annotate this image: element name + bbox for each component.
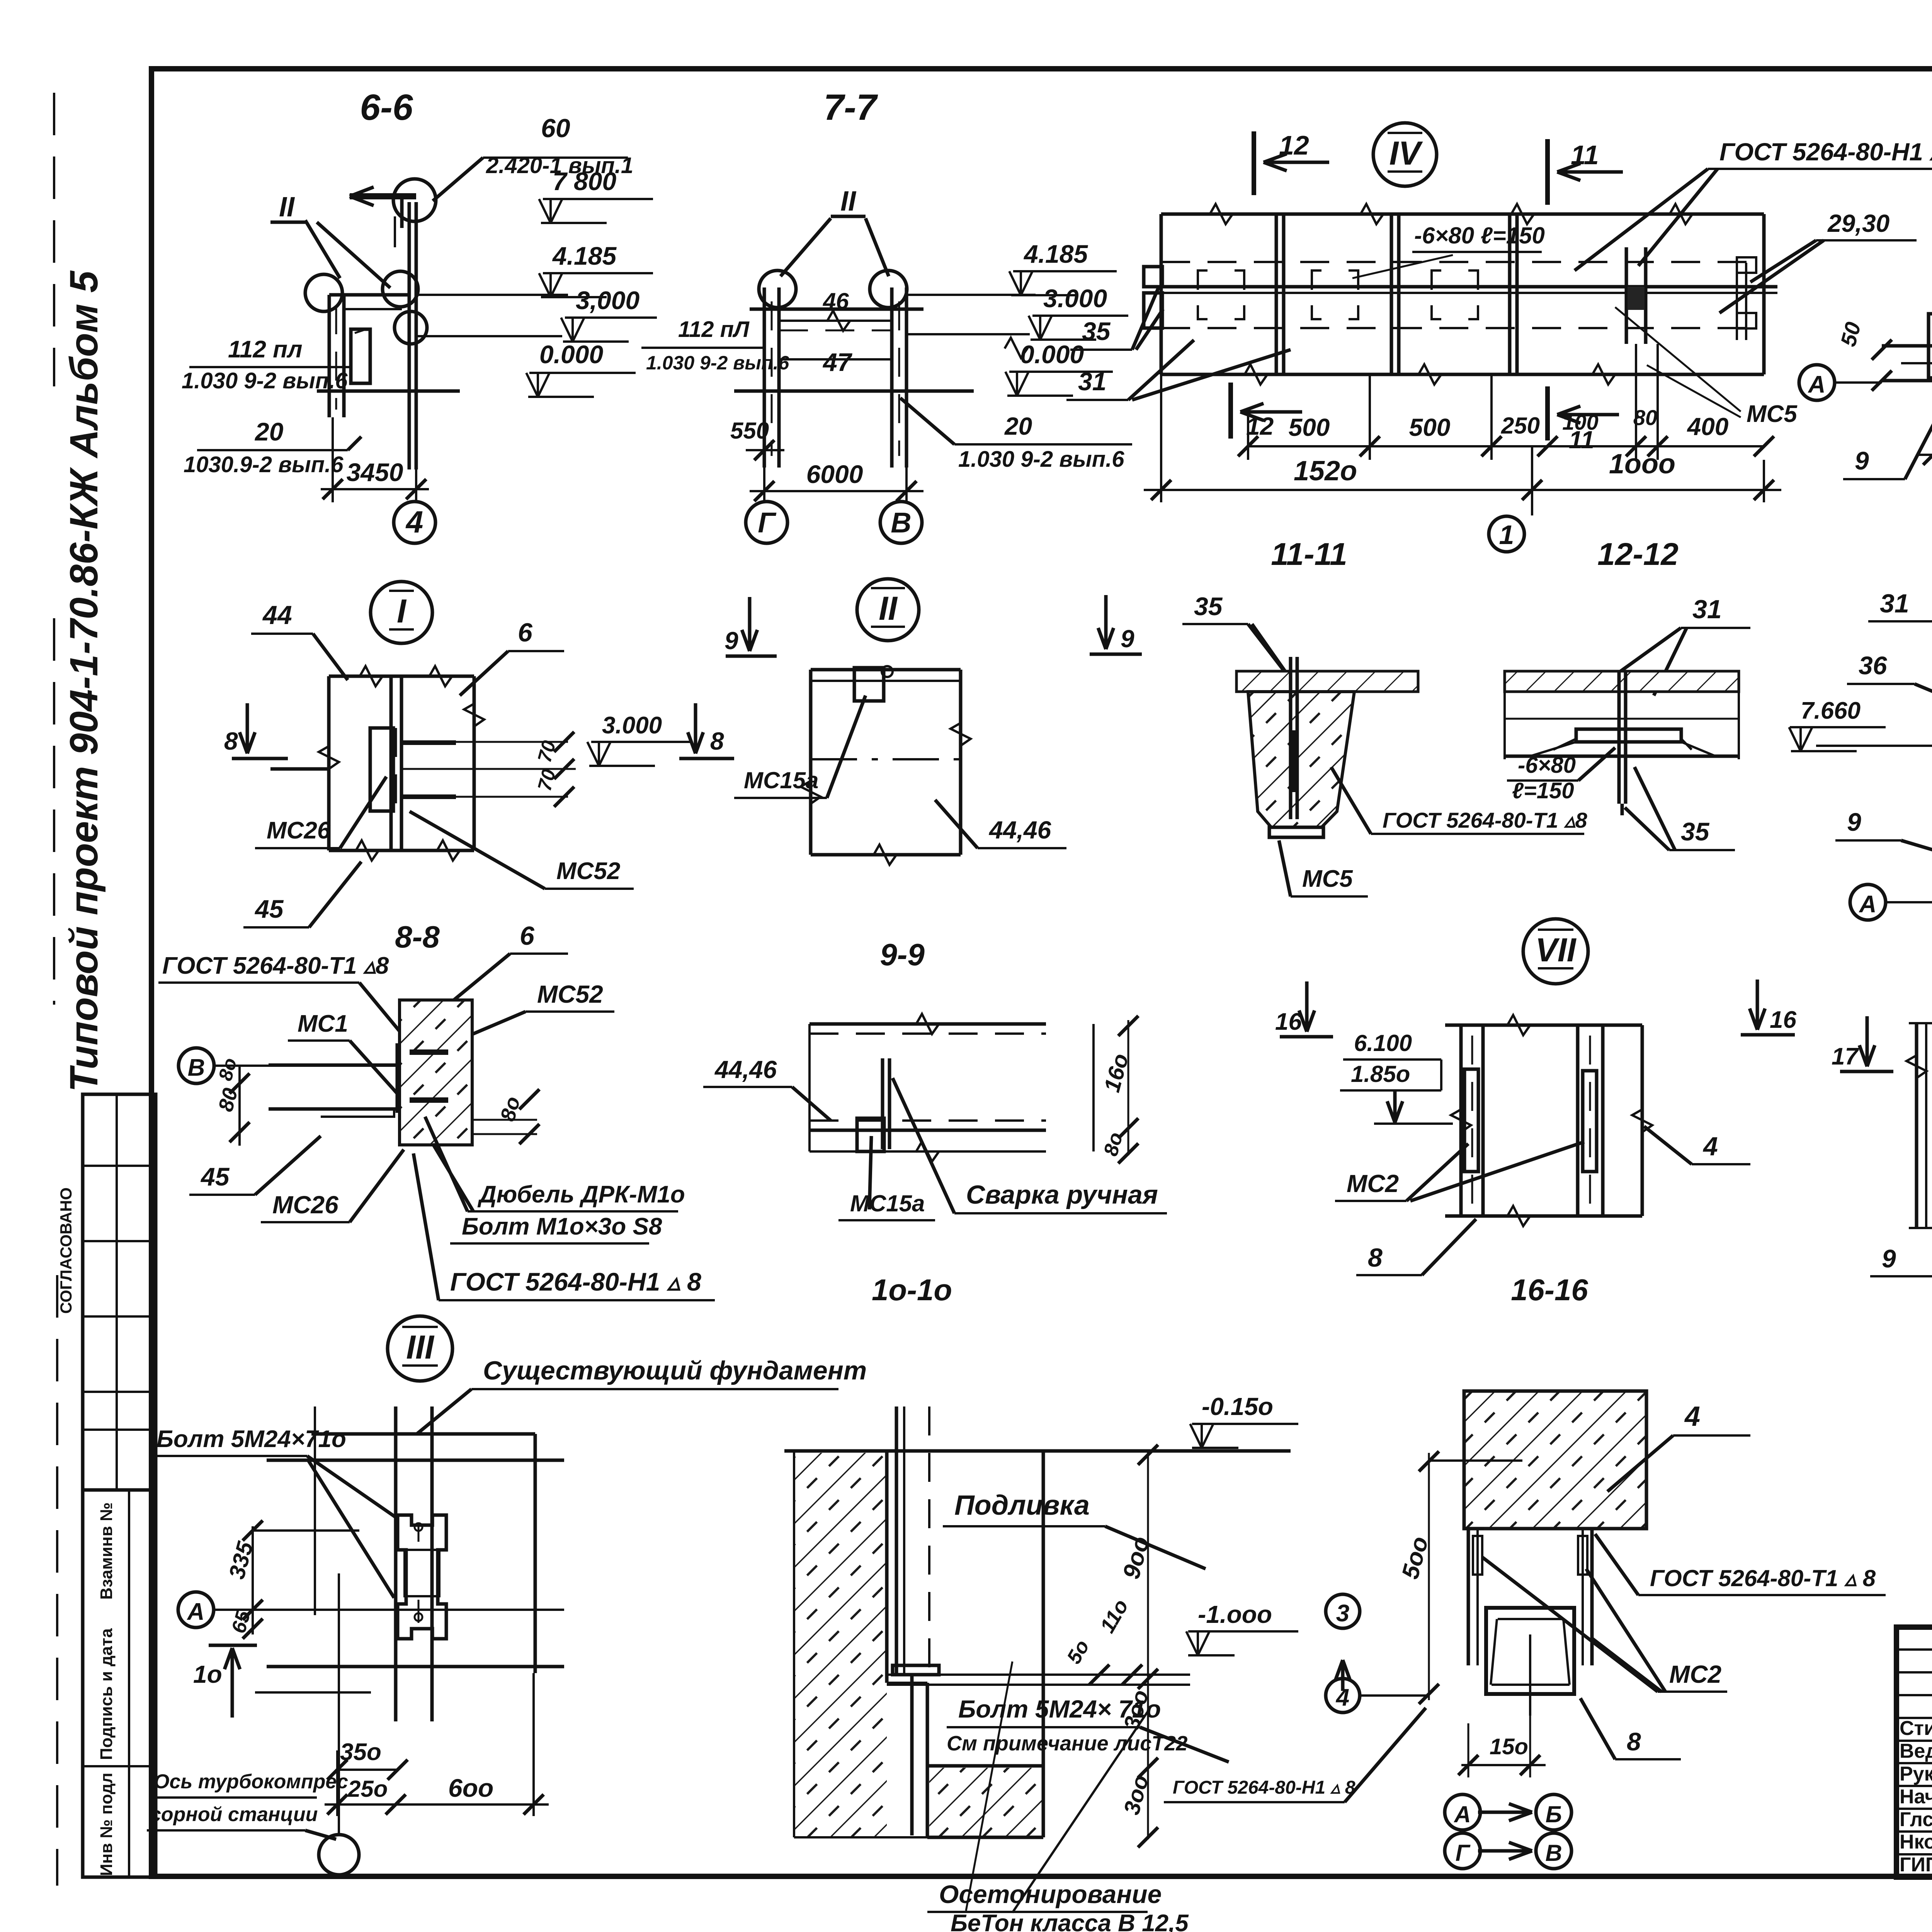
10-10 panel bbox=[810, 1022, 1046, 1026]
svg-text:9: 9 bbox=[1882, 1244, 1896, 1273]
12-12 slab lines bbox=[1505, 671, 1739, 692]
svg-text:Инв № подл: Инв № подл bbox=[97, 1772, 116, 1876]
svg-text:4: 4 bbox=[405, 505, 423, 539]
svg-text:4.185: 4.185 bbox=[552, 241, 617, 270]
svg-text:16: 16 bbox=[1275, 1009, 1302, 1035]
IV cut mark 12 top bbox=[1252, 131, 1256, 195]
svg-text:7.660: 7.660 bbox=[1801, 697, 1861, 724]
svg-text:МС5: МС5 bbox=[1747, 401, 1798, 427]
svg-text:4: 4 bbox=[1684, 1401, 1700, 1432]
sleeve axis arrows A-B G-V bbox=[1445, 1794, 1480, 1830]
svg-text:ГОСТ 5264-80-Н1 ▵ 8: ГОСТ 5264-80-Н1 ▵ 8 bbox=[1173, 1777, 1355, 1798]
svg-text:0.000: 0.000 bbox=[1020, 340, 1084, 369]
svg-text:ГОСТ 5264-80-Н1 ▵ 8: ГОСТ 5264-80-Н1 ▵ 8 bbox=[450, 1267, 701, 1296]
svg-text:35: 35 bbox=[1194, 592, 1223, 621]
title block signature grid bbox=[1896, 1648, 1932, 1651]
6-6 joint circle top bbox=[393, 179, 436, 221]
B-B axis B circle bbox=[179, 1048, 214, 1083]
svg-text:9-9: 9-9 bbox=[880, 937, 925, 972]
svg-text:7-7: 7-7 bbox=[823, 87, 878, 128]
III column section bbox=[398, 1515, 446, 1639]
svg-text:В: В bbox=[188, 1054, 205, 1081]
IV cut mark 11 bottom bbox=[1545, 386, 1550, 440]
svg-text:35: 35 bbox=[1681, 817, 1710, 846]
6-6 junction circles bbox=[305, 274, 342, 311]
svg-text:36: 36 bbox=[1859, 651, 1888, 680]
svg-text:Осетонирование: Осетонирование bbox=[939, 1880, 1162, 1908]
svg-text:12-12: 12-12 bbox=[1597, 537, 1679, 572]
svg-text:1: 1 bbox=[1499, 520, 1514, 550]
svg-text:Дюбель ДРК-М1о: Дюбель ДРК-М1о bbox=[477, 1181, 685, 1208]
svg-text:8: 8 bbox=[710, 727, 724, 755]
6-6 axis 4 circle bbox=[415, 489, 417, 501]
svg-text:МС26: МС26 bbox=[267, 817, 331, 844]
svg-text:112 пл: 112 пл bbox=[228, 336, 303, 363]
svg-text:II: II bbox=[279, 192, 295, 223]
svg-text:IV: IV bbox=[1389, 135, 1423, 172]
svg-text:ГОСТ 5264-80-Т1 ▵ 8: ГОСТ 5264-80-Т1 ▵ 8 bbox=[1650, 1565, 1876, 1591]
svg-text:ГОСТ 5264-80-Т1 ▵8: ГОСТ 5264-80-Т1 ▵8 bbox=[162, 952, 389, 979]
II top clip bbox=[854, 668, 884, 701]
svg-text:16: 16 bbox=[1770, 1007, 1796, 1033]
IV beam partitions bbox=[1275, 214, 1278, 374]
IV right bolt assembly bbox=[1625, 247, 1628, 344]
svg-text:Начотд: Начотд bbox=[1900, 1786, 1932, 1808]
B-B dims 80 80 80 bbox=[238, 1066, 241, 1146]
svg-text:9: 9 bbox=[1847, 808, 1861, 836]
svg-text:VII: VII bbox=[1535, 932, 1577, 969]
7-7 dim 6000 bbox=[763, 468, 765, 502]
IV beam plate band bbox=[1144, 285, 1777, 289]
6-6 dim 3450 bbox=[332, 417, 334, 502]
detail VII circle bbox=[1523, 919, 1588, 984]
svg-text:12: 12 bbox=[1246, 412, 1274, 440]
svg-text:В: В bbox=[1545, 1840, 1562, 1866]
13-13mid axis A circle bbox=[1850, 884, 1886, 920]
svg-text:20: 20 bbox=[1004, 412, 1032, 440]
svg-text:12: 12 bbox=[1279, 130, 1309, 160]
6-6 left column bbox=[328, 295, 331, 417]
svg-text:Сварка ручная: Сварка ручная bbox=[966, 1180, 1158, 1209]
svg-text:44: 44 bbox=[262, 600, 292, 630]
foundation grout line bbox=[887, 1673, 1190, 1676]
svg-text:-1.ооо: -1.ооо bbox=[1198, 1600, 1272, 1628]
sleeve dim 500 bbox=[1428, 1453, 1430, 1700]
sleeve left line bbox=[1430, 1459, 1522, 1462]
svg-text:1.030 9-2 вып.6: 1.030 9-2 вып.6 bbox=[182, 368, 348, 393]
foundation existing hatched bbox=[794, 1453, 887, 1837]
6-6 column shaft bbox=[408, 202, 411, 469]
svg-text:15о: 15о bbox=[1490, 1734, 1528, 1759]
svg-text:См примечание лисТ22: См примечание лисТ22 bbox=[947, 1732, 1187, 1755]
12-12 flange plate bbox=[1576, 729, 1681, 742]
svg-text:8: 8 bbox=[1368, 1243, 1383, 1272]
sleeve label 3-4 axis bbox=[1326, 1594, 1360, 1628]
svg-text:11: 11 bbox=[1571, 140, 1599, 170]
detail II circle bbox=[857, 579, 919, 641]
16-16 plates bbox=[1464, 1069, 1478, 1172]
svg-text:8: 8 bbox=[224, 727, 238, 755]
svg-text:сорной станции: сорной станции bbox=[150, 1803, 318, 1826]
detail I circle bbox=[371, 582, 432, 643]
svg-text:МС52: МС52 bbox=[556, 858, 620, 884]
I dim 70 70 bbox=[401, 741, 568, 743]
svg-text:Нконтр: Нконтр bbox=[1900, 1831, 1932, 1853]
svg-text:250: 250 bbox=[1501, 413, 1540, 439]
svg-text:А: А bbox=[1453, 1801, 1471, 1827]
svg-text:Взаминв №: Взаминв № bbox=[97, 1502, 116, 1600]
svg-text:4: 4 bbox=[1335, 1684, 1349, 1711]
svg-text:46: 46 bbox=[823, 288, 849, 314]
7-7 axis G circle bbox=[763, 491, 765, 501]
IV cut mark 12 bottom bbox=[1228, 383, 1233, 439]
7-7 joint circles bbox=[759, 270, 796, 308]
svg-text:16-16: 16-16 bbox=[1511, 1273, 1588, 1307]
svg-text:МС52: МС52 bbox=[537, 980, 603, 1008]
svg-text:1ооо: 1ооо bbox=[1609, 449, 1675, 480]
11-11 anchor bolt bbox=[1289, 657, 1293, 819]
svg-text:20: 20 bbox=[254, 417, 284, 446]
svg-text:Б: Б bbox=[1546, 1801, 1562, 1827]
svg-text:6000: 6000 bbox=[806, 460, 863, 488]
svg-text:29,30: 29,30 bbox=[1827, 209, 1889, 237]
IV weld pockets dashed bbox=[1198, 270, 1244, 319]
svg-text:Стинж: Стинж bbox=[1900, 1717, 1932, 1740]
foundation dim 900 300 300 bbox=[1147, 1451, 1149, 1839]
svg-text:1030.9-2 вып.6: 1030.9-2 вып.6 bbox=[184, 452, 344, 477]
svg-text:А: А bbox=[187, 1599, 205, 1625]
svg-text:9: 9 bbox=[1855, 446, 1869, 475]
sleeve centerline bbox=[1529, 1634, 1531, 1716]
svg-text:152о: 152о bbox=[1294, 456, 1357, 486]
svg-text:8-8: 8-8 bbox=[395, 920, 440, 954]
III axis circle empty bbox=[319, 1835, 359, 1875]
svg-text:-0.15о: -0.15о bbox=[1202, 1393, 1273, 1420]
10-10 gusset bbox=[881, 1058, 884, 1149]
IV left end plates bbox=[1144, 267, 1162, 287]
break marks on columns bbox=[319, 746, 339, 769]
break marks on beams bbox=[1209, 204, 1233, 224]
foundation pit outline bbox=[885, 1451, 889, 1683]
svg-text:47: 47 bbox=[822, 348, 853, 376]
svg-text:Болт М1о×3о S8: Болт М1о×3о S8 bbox=[462, 1213, 662, 1240]
svg-text:31: 31 bbox=[1692, 595, 1722, 624]
svg-text:6: 6 bbox=[518, 618, 533, 647]
svg-text:МС5: МС5 bbox=[1302, 866, 1353, 892]
svg-text:112 пЛ: 112 пЛ bbox=[678, 317, 750, 342]
svg-text:1.030 9-2 вып.6: 1.030 9-2 вып.6 bbox=[646, 352, 790, 374]
svg-text:3,000: 3,000 bbox=[576, 286, 639, 315]
B-B anchor plates bbox=[410, 1049, 448, 1055]
I column lines bbox=[327, 676, 331, 850]
svg-text:9: 9 bbox=[1121, 625, 1134, 653]
svg-text:44,46: 44,46 bbox=[988, 816, 1051, 844]
svg-text:МС1: МС1 bbox=[298, 1010, 348, 1037]
svg-text:Вединж: Вединж bbox=[1900, 1740, 1932, 1762]
svg-text:4.185: 4.185 bbox=[1023, 240, 1088, 268]
II dash-dot axis bbox=[811, 758, 961, 760]
svg-text:500: 500 bbox=[1289, 413, 1330, 441]
svg-text:11-11: 11-11 bbox=[1271, 537, 1347, 572]
svg-text:6: 6 bbox=[520, 921, 535, 951]
svg-text:80: 80 bbox=[1633, 405, 1657, 430]
svg-text:МС15а: МС15а bbox=[850, 1190, 925, 1216]
svg-text:Болт 5М24×71о: Болт 5М24×71о bbox=[156, 1426, 346, 1452]
B-B hatched column bbox=[400, 1000, 472, 1145]
svg-text:Подпись и дата: Подпись и дата bbox=[97, 1628, 116, 1760]
I left stub bbox=[270, 767, 329, 771]
svg-text:БеТон класса В 12,5: БеТон класса В 12,5 bbox=[951, 1910, 1189, 1932]
svg-text:Существующий фундамент: Существующий фундамент bbox=[483, 1356, 867, 1385]
III axis vertical line bbox=[338, 1573, 340, 1833]
foundation pit outline lines bbox=[885, 1451, 889, 1683]
B-B wall beam bbox=[269, 1063, 397, 1066]
III axis A circle bbox=[178, 1592, 214, 1628]
II panel outline bbox=[811, 668, 961, 672]
svg-text:45: 45 bbox=[200, 1162, 230, 1191]
svg-text:0.000: 0.000 bbox=[539, 340, 603, 369]
7-7 beam lines bbox=[750, 308, 923, 311]
svg-text:400: 400 bbox=[1687, 413, 1729, 440]
svg-text:550: 550 bbox=[730, 418, 769, 444]
svg-text:МС2: МС2 bbox=[1669, 1660, 1721, 1688]
left margin stamp column bbox=[83, 1094, 156, 1877]
svg-text:7 800: 7 800 bbox=[553, 167, 616, 196]
7-7 floor line bbox=[734, 389, 974, 393]
svg-text:А: А bbox=[1859, 891, 1877, 918]
IV cut mark 11 top bbox=[1545, 139, 1550, 205]
svg-text:9: 9 bbox=[724, 627, 738, 655]
16-16 columns bbox=[1459, 1025, 1463, 1216]
7-7 axis V circle bbox=[905, 491, 908, 501]
svg-text:СОГЛАСОВАНО: СОГЛАСОВАНО bbox=[57, 1187, 75, 1314]
svg-text:ГИП: ГИП bbox=[1900, 1854, 1932, 1876]
svg-text:III: III bbox=[406, 1329, 435, 1366]
11-11 concrete trapezoid bbox=[1248, 692, 1354, 827]
svg-text:6-6: 6-6 bbox=[360, 87, 413, 128]
svg-text:3: 3 bbox=[1336, 1600, 1349, 1627]
6-6 top bracket arm bbox=[350, 193, 416, 199]
svg-text:ℓ=150: ℓ=150 bbox=[1512, 778, 1574, 803]
detail IV circle bbox=[1373, 123, 1437, 186]
svg-text:35: 35 bbox=[1082, 317, 1111, 345]
svg-text:6.100: 6.100 bbox=[1354, 1030, 1412, 1056]
sleeve hatched block bbox=[1464, 1391, 1646, 1529]
svg-text:45: 45 bbox=[254, 895, 284, 923]
sleeve column walls bbox=[1467, 1529, 1470, 1665]
svg-text:ГОСТ 5264-80-Н1 ▵8: ГОСТ 5264-80-Н1 ▵8 bbox=[1719, 138, 1932, 166]
svg-text:1о: 1о bbox=[193, 1660, 222, 1688]
III plan outline bbox=[311, 1432, 535, 1436]
svg-text:Глспец: Глспец bbox=[1900, 1808, 1932, 1831]
detail III circle bbox=[388, 1316, 452, 1381]
svg-text:60: 60 bbox=[541, 114, 570, 143]
V axis A circle bbox=[1799, 365, 1835, 400]
7-7 left column bbox=[763, 287, 766, 468]
11-11 base plate bbox=[1269, 827, 1323, 837]
svg-text:500: 500 bbox=[1409, 413, 1451, 441]
svg-text:3.000: 3.000 bbox=[602, 712, 662, 739]
title block outer bbox=[1896, 1627, 1932, 1877]
svg-text:В: В bbox=[891, 507, 911, 539]
6-6 beam stub bbox=[329, 293, 409, 297]
svg-text:44,46: 44,46 bbox=[714, 1056, 777, 1083]
sleeve inner column bbox=[1486, 1608, 1574, 1694]
svg-text:ГОСТ 5264-80-Т1 ▵8: ГОСТ 5264-80-Т1 ▵8 bbox=[1383, 808, 1587, 832]
svg-text:-6×80: -6×80 bbox=[1518, 753, 1576, 778]
svg-text:Г: Г bbox=[1456, 1840, 1471, 1866]
svg-text:3.000: 3.000 bbox=[1043, 284, 1107, 313]
svg-text:8: 8 bbox=[1627, 1727, 1641, 1756]
foundation anchor bolt bbox=[895, 1406, 898, 1673]
17-17 left column bbox=[1915, 1023, 1918, 1228]
svg-text:25о: 25о bbox=[347, 1776, 388, 1802]
svg-text:100: 100 bbox=[1562, 410, 1598, 434]
svg-text:17: 17 bbox=[1832, 1043, 1859, 1070]
I bolt stubs bbox=[401, 740, 456, 745]
svg-text:Г: Г bbox=[758, 507, 777, 539]
6-6 floor line bbox=[317, 389, 460, 393]
svg-text:4: 4 bbox=[1702, 1132, 1718, 1161]
svg-text:Подливка: Подливка bbox=[954, 1490, 1090, 1521]
page edge mark left bbox=[53, 93, 55, 386]
6-6 door opening bbox=[351, 329, 370, 383]
svg-text:31: 31 bbox=[1880, 589, 1909, 618]
svg-text:6оо: 6оо bbox=[448, 1774, 493, 1802]
svg-text:1.030 9-2 вып.6: 1.030 9-2 вып.6 bbox=[958, 447, 1124, 472]
svg-text:II: II bbox=[879, 590, 898, 627]
svg-text:1о-1о: 1о-1о bbox=[872, 1273, 952, 1307]
IV dims 500 500 250 100 80 400 bbox=[1248, 445, 1764, 447]
IV dim 1520 and 1000 bbox=[1160, 374, 1162, 502]
svg-text:31: 31 bbox=[1078, 367, 1106, 396]
III dim 335 65 bbox=[252, 1526, 254, 1634]
svg-text:3450: 3450 bbox=[347, 458, 403, 486]
I plate bbox=[370, 728, 393, 811]
7-7 right column bbox=[890, 287, 894, 468]
IV beam outline bbox=[1161, 213, 1764, 216]
svg-text:II: II bbox=[840, 186, 857, 217]
svg-text:МС2: МС2 bbox=[1347, 1170, 1399, 1197]
svg-text:МС26: МС26 bbox=[272, 1191, 338, 1219]
svg-text:I: I bbox=[397, 593, 407, 630]
svg-text:Рук.гр: Рук.гр bbox=[1900, 1763, 1932, 1785]
IV axis 1 circle bbox=[1531, 446, 1533, 515]
10-10 dim 160 80 bbox=[1128, 1020, 1129, 1155]
11-11 roof slab hatched bbox=[1236, 671, 1418, 692]
svg-text:А: А bbox=[1808, 371, 1826, 398]
svg-text:Типовой проект 904-1-70.86-К: Типовой проект 904-1-70.86-КЖ Альбом 5 bbox=[62, 270, 106, 1092]
V beam body bbox=[1882, 344, 1932, 348]
svg-text:-6×80 ℓ=150: -6×80 ℓ=150 bbox=[1414, 223, 1545, 248]
V left block bbox=[1929, 314, 1932, 378]
12-12 web plate bbox=[1617, 671, 1621, 804]
svg-text:Ось турбокомпрес: Ось турбокомпрес bbox=[154, 1770, 348, 1793]
svg-text:1.85о: 1.85о bbox=[1351, 1061, 1410, 1087]
